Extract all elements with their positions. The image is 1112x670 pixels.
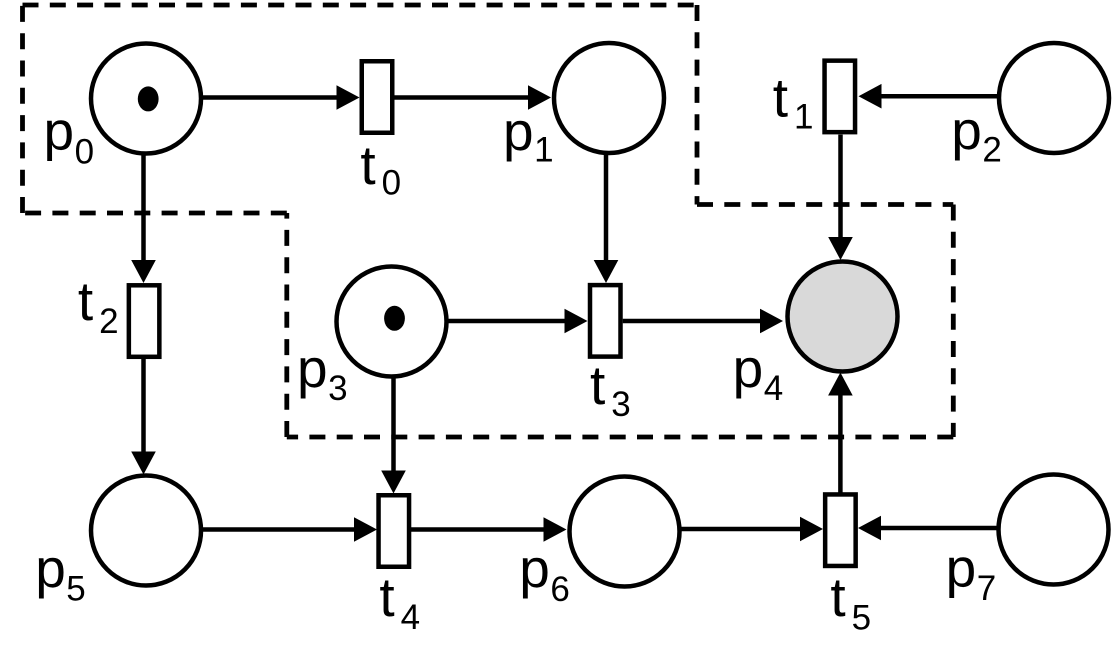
svg-text:p0: p0 [44,99,95,171]
svg-text:p6: p6 [519,537,570,609]
svg-text:p7: p7 [946,536,997,608]
svg-text:t1: t1 [773,67,814,137]
svg-text:t2: t2 [78,270,119,341]
svg-text:p2: p2 [951,99,1002,169]
svg-text:t5: t5 [830,566,871,637]
svg-text:t0: t0 [360,134,401,203]
svg-text:t4: t4 [379,566,420,637]
svg-text:p3: p3 [297,337,348,408]
svg-text:t3: t3 [590,354,631,424]
svg-text:p4: p4 [733,337,784,408]
svg-text:p1: p1 [503,100,554,170]
svg-text:p5: p5 [35,537,86,609]
